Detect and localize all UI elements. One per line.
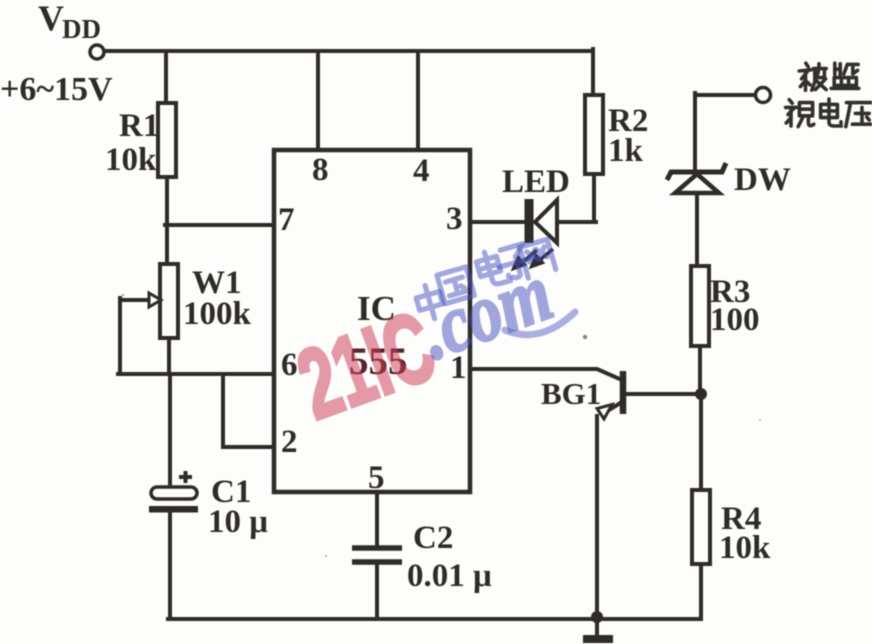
zener diode DW cathode bar with hooks (667, 163, 726, 180)
junction dot: emitter / ground bus (591, 611, 603, 623)
ground symbol bar (583, 635, 613, 643)
IC 555 box (274, 150, 470, 492)
watermark 21IC (pink) (284, 290, 448, 440)
svg-text:3: 3 (446, 201, 463, 237)
svg-text:8: 8 (312, 152, 329, 188)
svg-text:LED: LED (502, 164, 570, 200)
monitored voltage terminal circle (756, 88, 771, 103)
resistor R4 (692, 490, 710, 564)
wire: C2 bottom to ground bus (375, 562, 379, 619)
wire: node down to W1 top (165, 225, 169, 264)
svg-text:100: 100 (710, 302, 760, 338)
wire: R4 bottom to ground bus (699, 564, 703, 619)
wire: pin6 net down to C1 (168, 374, 172, 487)
capacitor C2 bottom plate (352, 559, 402, 565)
wire: ground stub below bus (595, 619, 599, 636)
wire: R2 bottom down to LED level (592, 174, 596, 222)
svg-text:V: V (38, 0, 64, 38)
watermark .com script (blue) (408, 246, 563, 377)
potentiometer W1 wiper arrow (149, 293, 161, 307)
svg-text:10 μ: 10 μ (208, 504, 268, 540)
wire: LED anode to R2 branch (555, 220, 596, 224)
svg-text:0.01 μ: 0.01 μ (407, 558, 492, 594)
wire: wiper down to pin6 net (118, 298, 122, 374)
wire: VDD bus corner down to R2 (591, 49, 595, 95)
svg-text:100k: 100k (183, 296, 252, 332)
svg-text:4: 4 (413, 153, 430, 189)
wire: monitored-voltage terminal lead (695, 93, 756, 97)
wire: IC pin 3 to LED cathode (472, 220, 525, 224)
resistor R3 (691, 266, 709, 346)
svg-text:DW: DW (734, 162, 791, 198)
svg-text:C2: C2 (413, 520, 453, 556)
resistor R2 (585, 95, 603, 174)
VDD terminal circle (90, 45, 104, 59)
capacitor C1 positive plate (pill) (151, 487, 197, 499)
wire: VDD bus to IC pin 4 (416, 51, 420, 150)
wire: branch down to IC pin 2 (223, 374, 274, 447)
svg-text:10k: 10k (719, 530, 771, 566)
wire: IC pin 1 to BG1 base (472, 369, 622, 380)
wire: DW to R3 (695, 196, 699, 266)
wire: BG1 emitter down to ground bus (595, 416, 599, 616)
wire: top VDD bus (104, 49, 593, 53)
LED emission arrow 1 (512, 250, 537, 270)
wire: node down to R4 (699, 394, 703, 490)
capacitor C2 top plate (352, 545, 402, 551)
potentiometer W1 body (160, 264, 178, 338)
LED cathode bar (525, 199, 534, 243)
char 压 (846, 103, 872, 127)
svg-text:+6~15V: +6~15V (0, 71, 113, 108)
scan speckle marks (122, 294, 762, 558)
wire: IC pin 5 down to C2 (375, 492, 379, 548)
char 电 (821, 99, 841, 126)
wire: VDD bus to R1 (164, 51, 168, 103)
wire: W1 bottom to pin6 net (167, 338, 171, 374)
svg-text:10k: 10k (105, 142, 157, 178)
LED emission arrow 2 (530, 249, 553, 268)
junction dot: collector / R3 / R4 node (695, 388, 707, 400)
wire: BG1 collector to R3/R4 node (625, 392, 701, 396)
char 视 (786, 100, 814, 127)
LED triangle (anode, pointing left) (535, 200, 557, 243)
transistor BG1 emitter arrowhead (open) (597, 405, 612, 420)
capacitor C1 plus sign (179, 471, 192, 483)
svg-text:5: 5 (368, 460, 385, 496)
label 被监 (monitored) line 1, hand-drawn CJK strokes (786, 63, 872, 126)
watermark m swoosh (505, 312, 575, 335)
svg-text:DD: DD (62, 14, 101, 44)
wire: R1 bottom to pin7 node (165, 177, 169, 225)
svg-text:BG1: BG1 (541, 376, 601, 411)
wire: C1 bottom to ground bus (168, 511, 172, 619)
svg-text:7: 7 (278, 202, 295, 238)
svg-text:R1: R1 (119, 108, 159, 144)
transistor BG1 base bar (620, 371, 627, 414)
wire: bottom ground bus (168, 617, 701, 621)
svg-text:1k: 1k (608, 133, 644, 169)
char 监 (831, 63, 859, 88)
watermark 中国电子网 (blue) (414, 239, 556, 322)
transistor BG1 emitter diagonal (604, 402, 622, 413)
wire: node to IC pin 7 (165, 223, 274, 227)
svg-text:2: 2 (281, 424, 298, 460)
wire: pin 6 horizontal (118, 372, 274, 376)
wire: W1 wiper to left (120, 298, 149, 302)
zener diode DW triangle (675, 174, 719, 193)
char 被 (799, 63, 826, 90)
wire: R3 to collector node (698, 346, 702, 394)
wire: down to DW zener (693, 93, 697, 169)
resistor R1 (158, 103, 176, 177)
wire: VDD bus to IC pin 8 (316, 51, 320, 150)
capacitor C1 negative plate (149, 506, 198, 513)
